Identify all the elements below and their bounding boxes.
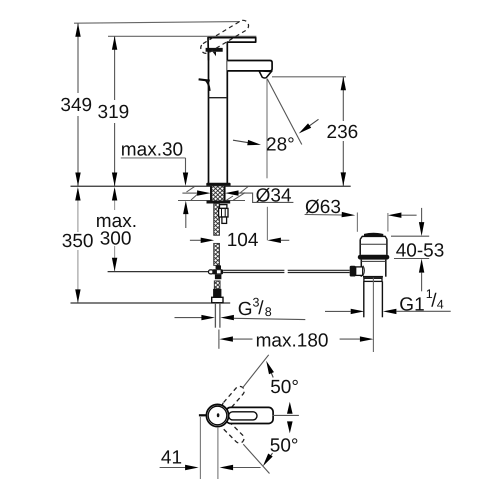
wire 50deg centerline lower [243,444,269,473]
drain pop-up waste [350,233,390,318]
svg-text:104: 104 [227,230,259,251]
dimension line 236 [327,77,359,186]
drain cap flare [360,236,387,239]
svg-text:349: 349 [60,95,92,116]
label G1 1/4 [325,287,451,316]
faucet side drain-pull lever [199,79,210,80]
svg-text:max.30: max.30 [121,139,183,160]
faucet handle base seam [206,48,223,52]
deck top line [71,185,351,187]
label max.30 [121,139,189,228]
threaded rod segment 2 [214,243,220,265]
top view left tick [199,414,207,416]
arrow down at bar end [287,421,293,433]
label 50deg lower [261,436,299,468]
svg-text:350: 350 [62,231,94,252]
svg-text:300: 300 [100,229,132,250]
faucet spout slab [227,61,272,71]
wire reference line 350 bottom [71,302,231,304]
hose collar [212,297,223,302]
dimension max.180 [219,330,374,352]
faucet handle lever (side view) [208,38,256,61]
wire top extension line 349 [74,22,240,24]
svg-text:319: 319 [98,102,130,123]
wire extension line 236 top [272,76,346,78]
wire water stream 28deg [267,79,302,145]
dimension line max.300 [96,187,137,271]
under-deck washer [207,201,231,204]
faucet handle base shadow wedge [213,52,216,56]
threaded rod segment 1 [214,204,220,236]
wire extension line spout axis below deck [266,207,268,241]
drain pull rod horizontal [223,270,350,272]
svg-text:236: 236 [327,122,359,143]
dimension line 319 [98,36,130,186]
dimension 40-53 [391,208,444,291]
aerator outlet wedge [259,71,271,78]
threaded shank through deck [211,186,225,200]
faucet base flange [206,183,230,187]
svg-text:50°: 50° [270,377,299,398]
drain rod port [356,267,363,276]
label G3/8 [175,296,306,321]
label D63 [305,197,417,218]
dimension 104 [190,230,289,251]
deck bottom line [178,200,245,202]
drain neck [359,240,361,255]
top view body inner circle [208,406,227,425]
dashed raised handle position [201,20,249,53]
drain tail pipe [363,281,365,317]
drain knurled knob [350,266,356,277]
drain body [360,260,362,277]
side fitting boxes [219,205,228,224]
arrow up at bar end [287,402,293,414]
top view lever bar [226,407,273,423]
svg-text:Ø34: Ø34 [256,185,292,206]
drain ball arc [363,266,365,276]
supply hose [214,303,216,328]
pivot clamp on pull rod [209,270,214,274]
dimension line 350 [62,187,94,303]
drain knob [364,233,383,237]
hose nut [213,289,221,297]
rod connector below pivot [215,274,222,279]
label 28deg with leaders [233,119,319,155]
wire water stream vertical [266,79,268,179]
svg-text:G: G [238,299,253,320]
faucet body column [209,52,228,183]
drain gasket [358,255,390,260]
drain collar [364,278,382,281]
svg-text:28°: 28° [266,134,295,155]
label D34 [182,185,293,206]
svg-text:41: 41 [161,447,182,468]
deck hatch ticks [187,187,249,201]
svg-text:/: / [258,298,264,319]
top view body outer circle [206,404,228,426]
dimension 41 [160,417,261,479]
top view lever slot [229,412,257,420]
threaded rod segment 3 [214,281,220,289]
svg-text:50°: 50° [270,436,299,457]
svg-text:8: 8 [265,305,272,319]
top view dashed handle lower [219,418,246,445]
wire reference line max.300 / drain pull rod left [108,271,209,273]
wire drain axis extension [372,278,374,353]
wire drain extension lines [356,213,358,232]
svg-text:4: 4 [437,298,444,312]
top view center dot [217,413,220,417]
wire extension line 319 [108,35,256,37]
top view dashed handle upper [221,384,247,412]
dimension line 349 [60,23,92,186]
label 50deg upper [264,360,299,398]
svg-text:G1: G1 [399,295,424,316]
svg-text:max.180: max.180 [256,330,329,351]
faucet body seam line [209,97,228,99]
wire 50deg centerline upper [243,355,269,388]
wire centerline right of bar [273,414,299,416]
rod connector above pivot [216,265,221,269]
